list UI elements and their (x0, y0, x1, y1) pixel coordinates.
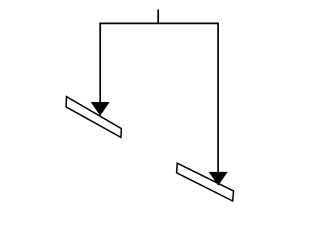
wire: right vertical drop (217, 23, 219, 174)
arrowhead: left arrow (91, 102, 109, 115)
arrowhead: right arrow (209, 172, 227, 185)
wire: horizontal bus (99, 22, 218, 24)
mirror M2: right inclined bar (177, 163, 234, 201)
mirror M1: left inclined bar (66, 97, 121, 138)
wire: top stub (157, 9, 159, 23)
wire: left vertical drop (99, 23, 101, 104)
